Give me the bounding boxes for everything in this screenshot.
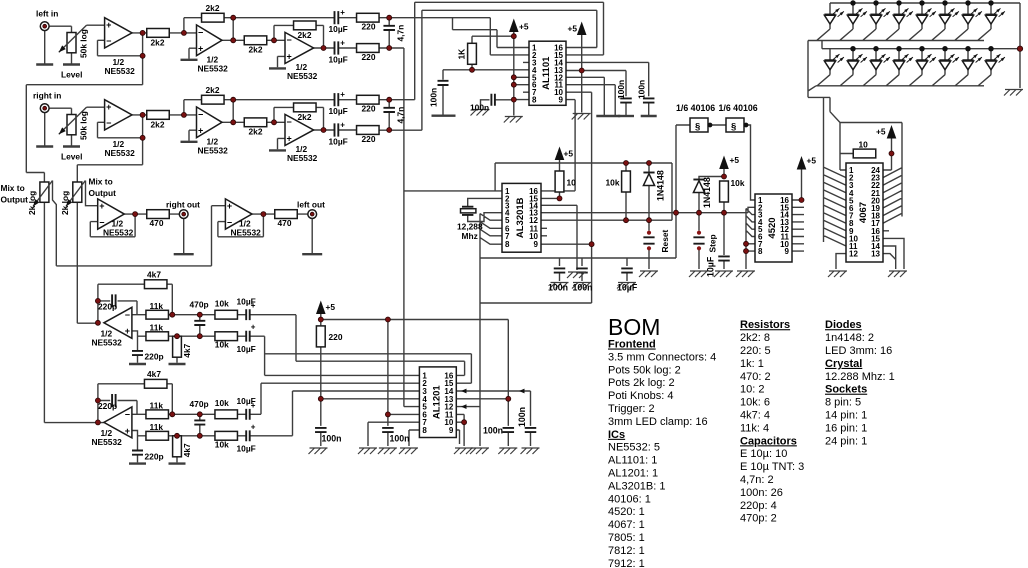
svg-text:left out: left out [297,200,325,210]
svg-text:8: 8 [505,240,510,249]
svg-text:10k: 10k [215,298,229,308]
svg-text:8: 8 [758,247,763,256]
svg-text:−: − [287,117,292,127]
svg-text:11k: 11k [150,422,164,432]
svg-text:4,7n: 4,7n [396,107,406,124]
svg-text:E 10µ TNT: 3: E 10µ TNT: 3 [740,461,804,473]
svg-text:NE5532: NE5532 [198,64,229,74]
svg-text:2k2: 2k2 [249,45,263,55]
svg-text:10k: 10k [215,439,229,449]
svg-text:+5: +5 [730,155,740,165]
svg-text:220p: 220p [98,302,117,312]
svg-text:4k7: 4k7 [147,270,161,280]
svg-text:11k: 4: 11k: 4 [740,422,769,434]
svg-text:Mix to: Mix to [1,183,25,193]
svg-text:NE5532: NE5532 [92,338,123,348]
svg-text:+: + [287,133,292,143]
svg-text:−: − [287,35,292,45]
svg-text:+5: +5 [564,149,574,159]
svg-text:+: + [99,201,104,211]
svg-text:+: + [340,8,345,17]
svg-text:100n: 100n [616,80,626,99]
svg-text:4067: 4067 [858,202,869,223]
svg-text:14 pin: 1: 14 pin: 1 [825,410,867,422]
svg-text:13: 13 [871,250,880,259]
svg-text:Trigger: 2: Trigger: 2 [608,403,655,415]
svg-text:2k log: 2k log [27,191,37,215]
svg-text:220: 5: 220: 5 [740,345,771,357]
svg-text:220p: 4: 220p: 4 [740,500,777,512]
svg-text:+: + [198,126,203,136]
svg-text:§: § [731,121,736,132]
svg-text:40106: 1: 40106: 1 [608,493,651,505]
svg-text:10µF: 10µF [237,444,256,454]
svg-text:220: 220 [362,22,376,32]
svg-text:10k: 10k [215,340,229,350]
svg-text:Frontend: Frontend [608,339,656,351]
svg-text:Diodes: Diodes [825,319,862,331]
svg-text:8: 8 [532,96,537,105]
svg-text:+: + [106,20,111,30]
svg-text:AL1101: 1: AL1101: 1 [608,455,657,467]
svg-text:Mix to: Mix to [89,177,113,187]
svg-text:Resistors: Resistors [740,319,790,331]
svg-text:NE5532: NE5532 [103,227,134,237]
svg-text:AL1201: AL1201 [431,385,442,420]
svg-text:7912: 1: 7912: 1 [608,558,645,568]
svg-text:10µF: 10µF [706,256,716,277]
svg-text:Capacitors: Capacitors [740,435,797,447]
svg-text:NE5532: NE5532 [231,227,262,237]
svg-text:Step: Step [708,234,718,252]
svg-text:12: 12 [849,250,858,259]
svg-text:10µF: 10µF [329,24,348,34]
svg-text:10k: 10k [731,178,745,188]
svg-text:10µF: 10µF [237,297,256,307]
svg-text:+: + [227,201,232,211]
svg-text:1N4148: 1N4148 [702,177,712,208]
svg-text:2k2: 2k2 [298,112,312,122]
svg-text:10k: 10k [215,398,229,408]
svg-text:16 pin: 1: 16 pin: 1 [825,422,867,434]
svg-text:1K: 1K [457,49,467,60]
svg-text:+: + [125,426,130,436]
svg-text:Sockets: Sockets [825,384,867,396]
svg-text:1k: 1: 1k: 1 [740,358,764,370]
svg-text:+: + [340,38,345,47]
svg-text:−: − [99,217,104,227]
svg-text:220: 220 [362,134,376,144]
svg-text:11k: 11k [150,322,164,332]
svg-text:100n: 100n [637,80,647,99]
svg-text:+5: +5 [876,127,886,137]
svg-text:10µF: 10µF [237,344,256,354]
svg-text:+5: +5 [568,24,578,34]
svg-text:2k log: 2k log [60,191,70,215]
svg-text:220p: 220p [98,401,117,411]
svg-text:470: 2: 470: 2 [740,371,771,383]
svg-text:−: − [106,118,111,128]
svg-text:ICs: ICs [608,429,625,441]
svg-text:4520: 1: 4520: 1 [608,506,645,518]
svg-text:100n: 100n [429,88,439,107]
svg-text:left in: left in [36,9,58,19]
svg-text:4k7: 4k7 [147,369,161,379]
svg-text:BOM: BOM [608,314,660,340]
svg-text:Level: Level [61,70,82,80]
svg-text:10µF: 10µF [617,283,638,293]
svg-text:9: 9 [785,247,790,256]
svg-text:220: 220 [362,104,376,114]
svg-text:right out: right out [166,200,200,210]
svg-text:10: 10 [567,177,577,187]
svg-text:Pots 50k log: 2: Pots 50k log: 2 [608,364,681,376]
svg-text:220p: 220p [145,451,164,461]
svg-text:+5: +5 [807,156,817,166]
svg-text:2k2: 2k2 [151,37,165,47]
svg-text:−: − [198,27,203,37]
svg-text:470: 470 [278,218,292,228]
svg-text:220p: 220p [145,352,164,362]
svg-text:−: − [125,409,130,419]
svg-text:AL3201B: 1: AL3201B: 1 [608,480,666,492]
svg-text:+: + [340,120,345,129]
svg-text:Output: Output [1,195,29,205]
svg-text:+: + [251,422,256,431]
svg-text:4,7n: 2: 4,7n: 2 [740,474,774,486]
svg-text:NE5532: NE5532 [92,437,123,447]
svg-text:1/6 40106: 1/6 40106 [719,103,758,113]
svg-text:50k log: 50k log [79,111,89,140]
svg-text:10µF: 10µF [329,136,348,146]
svg-text:470p: 2: 470p: 2 [740,513,777,525]
svg-text:10: 2: 10: 2 [740,384,764,396]
svg-text:AL1101: AL1101 [541,56,552,90]
svg-text:Reset: Reset [660,229,670,252]
svg-text:10: 10 [859,140,869,150]
svg-text:+: + [198,44,203,54]
svg-text:Mhz: Mhz [462,231,478,241]
svg-text:100n: 100n [548,283,568,293]
svg-text:7805: 1: 7805: 1 [608,532,645,544]
svg-text:NE5532: NE5532 [198,146,229,156]
svg-text:12,288: 12,288 [457,222,483,232]
svg-text:9: 9 [534,240,539,249]
svg-text:LED 3mm: 16: LED 3mm: 16 [825,345,892,357]
svg-text:−: − [106,36,111,46]
svg-text:2k2: 2k2 [249,127,263,137]
svg-text:100n: 100n [322,434,342,444]
svg-text:Poti Knobs: 4: Poti Knobs: 4 [608,390,673,402]
svg-text:1n4148: 2: 1n4148: 2 [825,332,874,344]
svg-text:3mm LED clamp: 16: 3mm LED clamp: 16 [608,416,708,428]
svg-text:Level: Level [61,152,82,162]
svg-text:9: 9 [559,96,564,105]
svg-text:470p: 470p [190,399,209,409]
svg-text:11k: 11k [150,401,164,411]
svg-text:+: + [340,90,345,99]
svg-text:10k: 10k [606,177,620,187]
svg-text:10µF: 10µF [237,396,256,406]
svg-text:100n: 100n [517,407,527,427]
svg-text:E 10µ: 10: E 10µ: 10 [740,448,787,460]
svg-text:Output: Output [89,188,117,198]
svg-text:100n: 100n [483,425,503,435]
svg-text:3.5 mm Connectors: 4: 3.5 mm Connectors: 4 [608,351,716,363]
svg-text:4520: 4520 [767,217,778,238]
svg-text:100n: 26: 100n: 26 [740,487,783,499]
svg-text:7812: 1: 7812: 1 [608,545,645,557]
svg-text:1N4148: 1N4148 [656,170,666,201]
svg-text:220: 220 [362,52,376,62]
svg-text:−: − [227,217,232,227]
svg-text:−: − [125,310,130,320]
svg-text:4k7: 4k7 [182,343,192,357]
svg-text:8 pin: 5: 8 pin: 5 [825,397,861,409]
svg-text:+5: +5 [326,302,336,312]
svg-text:AL3201B: AL3201B [515,197,526,238]
svg-text:NE5532: NE5532 [105,66,136,76]
svg-text:NE5532: NE5532 [105,148,136,158]
svg-text:2k2: 8: 2k2: 8 [740,332,770,344]
svg-text:12.288 Mhz: 1: 12.288 Mhz: 1 [825,371,895,383]
svg-text:1/6 40106: 1/6 40106 [676,103,715,113]
svg-text:100n: 100n [470,103,489,113]
svg-text:8: 8 [422,426,427,435]
svg-text:50k log: 50k log [79,29,89,58]
svg-text:4k7: 4k7 [182,443,192,457]
svg-text:+: + [125,326,130,336]
svg-text:Crystal: Crystal [825,358,862,370]
svg-text:−: − [198,109,203,119]
svg-text:2k2: 2k2 [298,30,312,40]
svg-text:Pots 2k log: 2: Pots 2k log: 2 [608,377,675,389]
svg-text:NE5532: NE5532 [287,153,318,163]
svg-text:10k: 6: 10k: 6 [740,397,770,409]
svg-text:+5: +5 [519,22,529,32]
svg-text:2k2: 2k2 [206,85,220,95]
svg-text:right in: right in [33,91,61,101]
svg-text:+: + [251,323,256,332]
svg-text:NE5532: NE5532 [287,71,318,81]
svg-text:4k7: 4: 4k7: 4 [740,410,770,422]
svg-text:2k2: 2k2 [151,119,165,129]
svg-text:24 pin: 1: 24 pin: 1 [825,435,867,447]
svg-text:§: § [695,121,700,132]
svg-text:470p: 470p [190,300,209,310]
svg-text:AL1201: 1: AL1201: 1 [608,468,658,480]
svg-text:100n: 100n [573,283,593,293]
svg-text:470: 470 [150,218,164,228]
svg-text:9: 9 [449,426,454,435]
svg-text:4,7n: 4,7n [396,25,406,42]
svg-text:+: + [106,102,111,112]
svg-text:4067: 1: 4067: 1 [608,519,645,531]
svg-text:+: + [287,51,292,61]
svg-text:11k: 11k [150,301,164,311]
svg-text:NE5532: 5: NE5532: 5 [608,442,660,454]
svg-text:220: 220 [329,332,343,342]
svg-text:100n: 100n [390,434,410,444]
svg-text:10µF: 10µF [329,106,348,116]
svg-text:2k2: 2k2 [206,3,220,13]
svg-text:10µF: 10µF [329,54,348,64]
